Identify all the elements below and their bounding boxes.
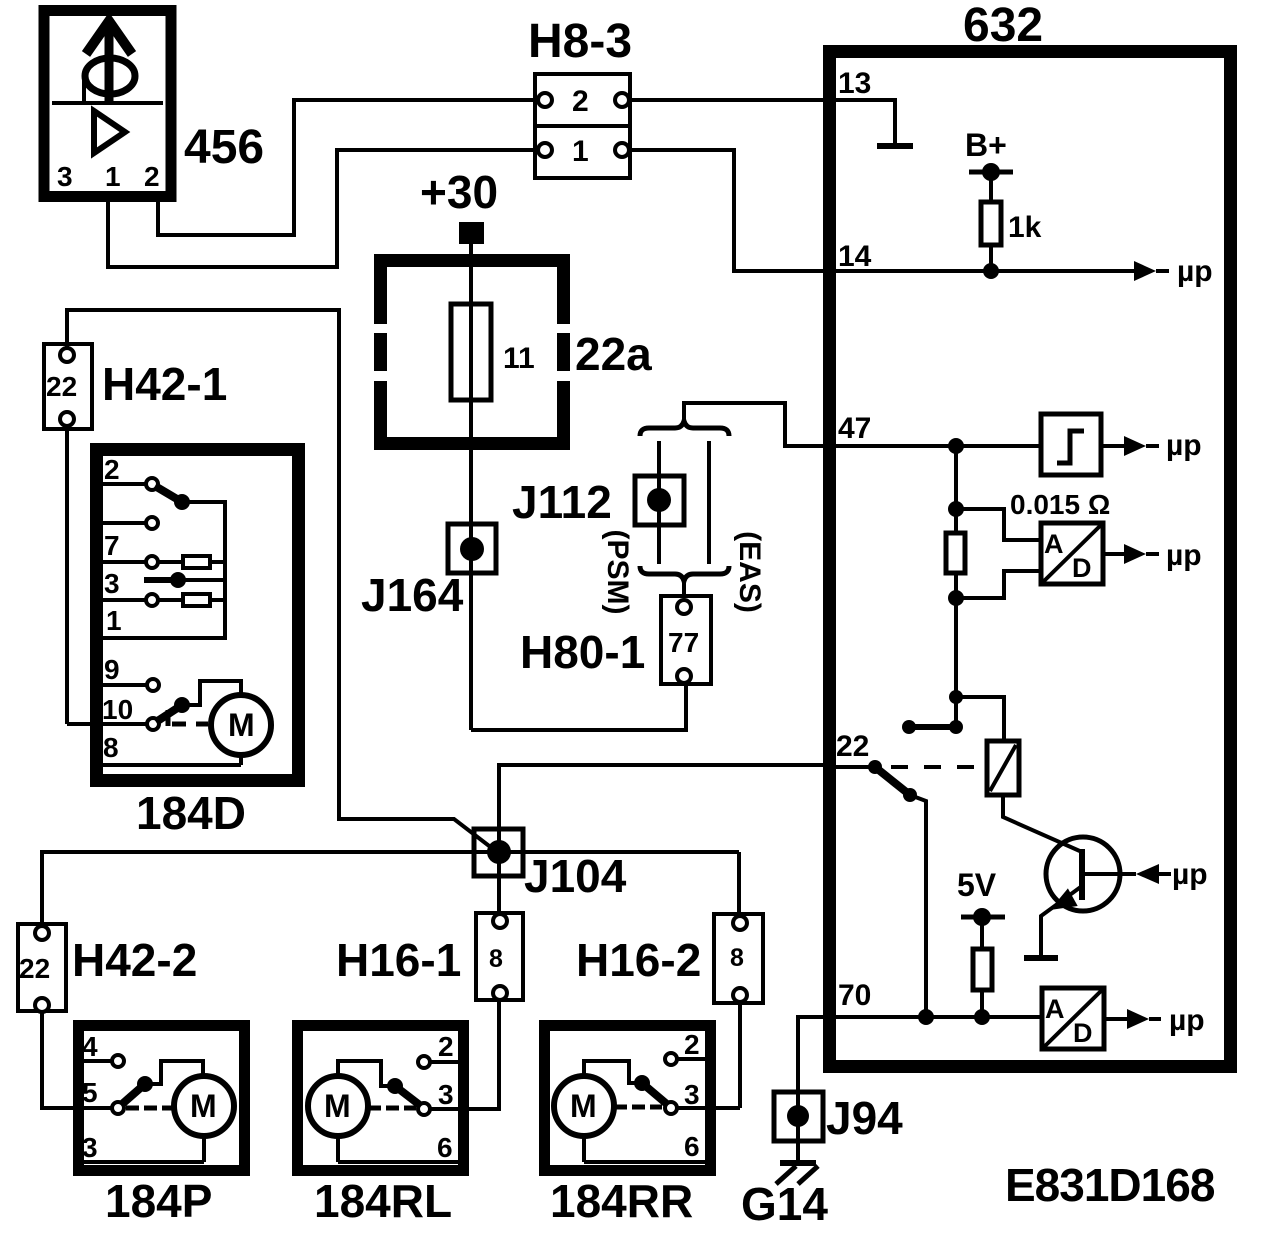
svg-text:µp: µp [1166,429,1202,462]
svg-text:µp: µp [1169,1004,1205,1037]
svg-text:0.015 Ω: 0.015 Ω [1010,489,1110,520]
svg-text:8: 8 [730,944,744,972]
svg-text:1: 1 [572,135,589,168]
svg-text:184D: 184D [136,787,246,839]
svg-text:(EAS): (EAS) [733,531,766,613]
svg-text:22a: 22a [575,328,652,380]
svg-text:5V: 5V [957,867,997,903]
svg-text:22: 22 [46,371,77,402]
svg-text:µp: µp [1172,858,1208,891]
svg-text:H80-1: H80-1 [520,626,645,678]
svg-text:22: 22 [19,953,50,984]
svg-text:M: M [324,1088,351,1124]
svg-text:456: 456 [184,121,264,174]
svg-text:µp: µp [1177,255,1213,288]
svg-text:13: 13 [838,67,871,100]
svg-text:1: 1 [106,605,122,636]
svg-text:184P: 184P [105,1175,212,1227]
svg-text:1k: 1k [1008,211,1042,244]
svg-text:2: 2 [684,1029,700,1060]
svg-text:J164: J164 [361,569,464,621]
svg-text:A: A [1044,529,1064,559]
svg-text:3: 3 [438,1079,454,1110]
svg-text:9: 9 [104,654,120,685]
svg-text:2: 2 [572,85,589,118]
svg-text:22: 22 [836,730,869,763]
svg-text:G14: G14 [741,1178,828,1230]
svg-text:184RR: 184RR [550,1175,693,1227]
svg-text:µp: µp [1166,539,1202,572]
svg-text:8: 8 [489,945,503,973]
svg-text:D: D [1073,1018,1093,1048]
svg-text:10: 10 [102,694,133,725]
svg-text:2: 2 [144,161,160,192]
svg-text:(PSM): (PSM) [601,530,634,615]
svg-text:1: 1 [105,161,121,192]
svg-text:H8-3: H8-3 [528,15,632,68]
svg-text:70: 70 [838,979,871,1012]
svg-text:8: 8 [103,732,119,763]
svg-text:+30: +30 [420,166,498,218]
svg-text:11: 11 [503,342,535,375]
svg-text:M: M [190,1088,217,1124]
svg-text:J112: J112 [512,476,612,528]
svg-text:2: 2 [104,454,120,485]
svg-text:5: 5 [82,1077,98,1108]
svg-text:6: 6 [437,1132,453,1163]
svg-text:E831D168: E831D168 [1005,1159,1215,1211]
svg-text:2: 2 [438,1031,454,1062]
svg-text:47: 47 [838,412,871,445]
svg-text:3: 3 [57,161,73,192]
svg-text:H16-1: H16-1 [336,934,461,986]
svg-text:M: M [228,707,255,743]
svg-text:4: 4 [82,1031,98,1062]
svg-text:3: 3 [684,1079,700,1110]
svg-text:7: 7 [104,530,120,561]
svg-text:J94: J94 [826,1092,903,1144]
svg-text:3: 3 [82,1132,98,1163]
svg-text:M: M [570,1088,597,1124]
svg-text:77: 77 [668,627,699,658]
svg-text:D: D [1072,553,1092,583]
svg-text:184RL: 184RL [314,1175,452,1227]
svg-text:J104: J104 [524,850,627,902]
svg-text:A: A [1045,994,1065,1024]
svg-text:B+: B+ [965,127,1007,163]
svg-text:H42-2: H42-2 [72,934,197,986]
svg-text:14: 14 [838,240,872,273]
svg-text:6: 6 [684,1131,700,1162]
svg-text:3: 3 [104,568,120,599]
svg-text:632: 632 [963,0,1043,52]
svg-text:H42-1: H42-1 [102,358,227,410]
svg-text:H16-2: H16-2 [576,934,701,986]
